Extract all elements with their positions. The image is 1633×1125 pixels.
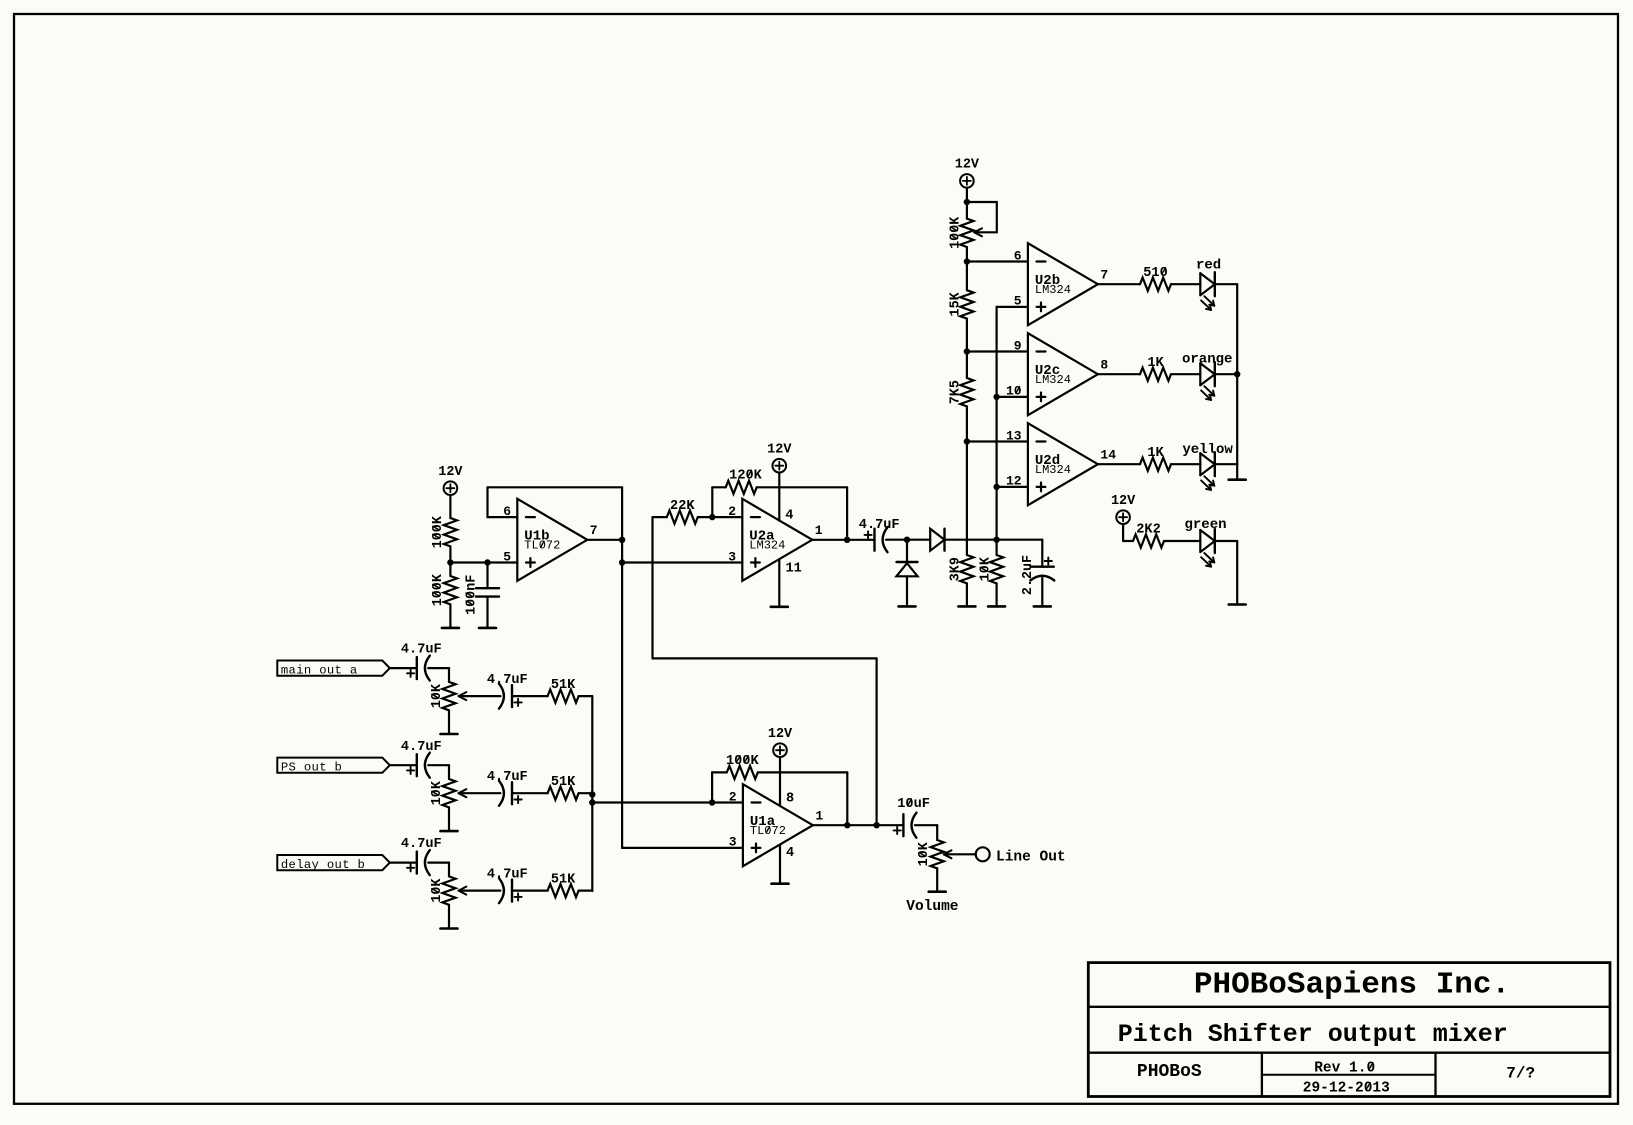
svg-text:5: 5 <box>1014 294 1022 309</box>
svg-text:510: 510 <box>1143 266 1167 281</box>
svg-text:Pitch Shifter output mixer: Pitch Shifter output mixer <box>1118 1020 1508 1049</box>
svg-text:4: 4 <box>785 509 793 524</box>
svg-text:yellow: yellow <box>1182 442 1233 458</box>
svg-text:7: 7 <box>590 523 598 538</box>
svg-text:15K: 15K <box>949 291 964 316</box>
svg-text:13: 13 <box>1006 428 1022 443</box>
svg-text:12V: 12V <box>1111 494 1136 509</box>
svg-text:6: 6 <box>1014 248 1022 263</box>
svg-text:29-12-2013: 29-12-2013 <box>1303 1081 1390 1097</box>
svg-text:10K: 10K <box>430 683 445 708</box>
svg-text:10K: 10K <box>430 780 445 805</box>
svg-text:12V: 12V <box>955 158 980 173</box>
svg-text:8: 8 <box>786 792 794 807</box>
svg-text:red: red <box>1196 258 1221 274</box>
svg-text:3: 3 <box>728 549 736 564</box>
svg-text:9: 9 <box>1014 338 1022 353</box>
svg-text:2.2uF: 2.2uF <box>1021 555 1036 595</box>
svg-text:51K: 51K <box>551 872 576 887</box>
svg-text:4.7uF: 4.7uF <box>859 518 900 533</box>
svg-text:4: 4 <box>786 846 794 861</box>
svg-text:14: 14 <box>1100 448 1116 463</box>
svg-text:4.7uF: 4.7uF <box>401 643 442 658</box>
svg-text:12: 12 <box>1006 474 1022 489</box>
svg-text:100K: 100K <box>431 515 446 548</box>
svg-text:2: 2 <box>728 504 736 519</box>
svg-text:10: 10 <box>1006 384 1022 399</box>
svg-text:7/?: 7/? <box>1506 1065 1535 1083</box>
svg-text:10K: 10K <box>430 878 445 903</box>
svg-text:11: 11 <box>786 561 802 576</box>
svg-text:100nF: 100nF <box>464 575 479 615</box>
svg-text:PHOBoS: PHOBoS <box>1137 1062 1202 1082</box>
svg-text:51K: 51K <box>551 775 576 790</box>
svg-text:4.7uF: 4.7uF <box>487 770 528 785</box>
svg-text:12V: 12V <box>768 727 793 742</box>
svg-text:4.7uF: 4.7uF <box>487 673 528 688</box>
svg-text:1: 1 <box>815 523 823 538</box>
svg-text:22K: 22K <box>670 499 695 514</box>
svg-text:LM324: LM324 <box>749 539 785 553</box>
svg-text:8: 8 <box>1100 358 1108 373</box>
svg-text:4.7uF: 4.7uF <box>401 740 442 755</box>
svg-text:green: green <box>1184 517 1226 533</box>
svg-text:LM324: LM324 <box>1035 373 1071 387</box>
svg-text:10K: 10K <box>917 841 932 866</box>
svg-text:PS out b: PS out b <box>281 760 342 774</box>
svg-text:delay out b: delay out b <box>281 858 365 872</box>
svg-text:100K: 100K <box>949 216 964 249</box>
svg-text:Rev 1.0: Rev 1.0 <box>1314 1061 1375 1077</box>
svg-text:3K9: 3K9 <box>949 557 964 581</box>
svg-text:10uF: 10uF <box>897 797 930 812</box>
svg-text:7: 7 <box>1100 268 1108 283</box>
svg-text:LM324: LM324 <box>1035 283 1071 297</box>
svg-text:12V: 12V <box>767 443 792 458</box>
svg-text:4.7uF: 4.7uF <box>487 868 528 883</box>
svg-text:PHOBoSapiens Inc.: PHOBoSapiens Inc. <box>1194 967 1510 1002</box>
svg-text:1K: 1K <box>1147 356 1164 371</box>
svg-text:2: 2 <box>729 789 737 804</box>
svg-text:12V: 12V <box>438 465 463 480</box>
svg-text:orange: orange <box>1182 352 1232 368</box>
svg-text:Line Out: Line Out <box>996 849 1066 865</box>
svg-text:2K2: 2K2 <box>1136 523 1160 538</box>
svg-text:5: 5 <box>503 549 511 564</box>
svg-text:120K: 120K <box>729 469 762 484</box>
svg-text:10K: 10K <box>978 556 993 581</box>
svg-text:1: 1 <box>815 809 823 824</box>
svg-text:4.7uF: 4.7uF <box>401 837 442 852</box>
svg-text:51K: 51K <box>551 678 576 693</box>
svg-text:main out a: main out a <box>281 663 358 677</box>
svg-text:3: 3 <box>729 835 737 850</box>
svg-text:LM324: LM324 <box>1035 463 1071 477</box>
svg-text:1K: 1K <box>1147 446 1164 461</box>
svg-text:Volume: Volume <box>906 899 958 915</box>
svg-text:100K: 100K <box>726 754 759 769</box>
svg-text:100K: 100K <box>431 573 446 606</box>
svg-text:7K5: 7K5 <box>949 380 964 404</box>
